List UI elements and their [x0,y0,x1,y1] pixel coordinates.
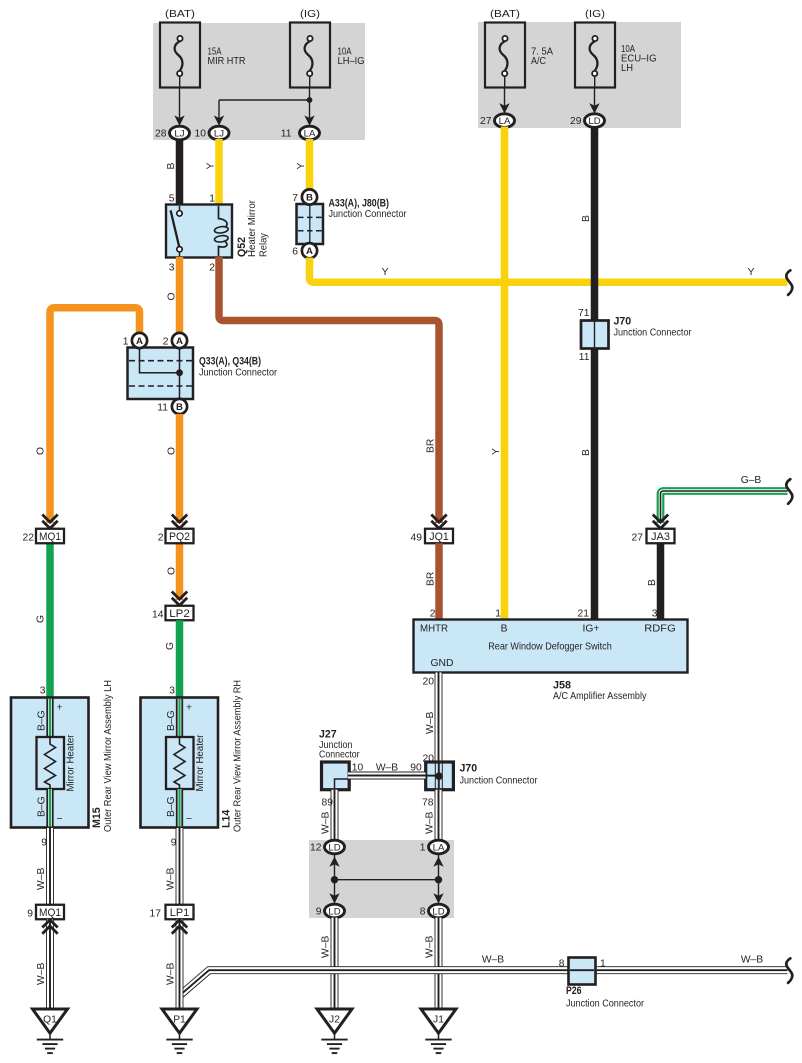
svg-text:29: 29 [570,116,582,127]
wire Y yellow 11LA to junction connector A33 pin 7 [296,139,310,190]
svg-text:O: O [167,567,178,575]
wire B black JA3 to defogger switch pin 3 RDFG [647,543,661,619]
svg-text:Y: Y [382,267,389,278]
svg-text:+: + [57,703,63,714]
wire O orange Q33 pin1A left branch down to 22 MQ1 [36,308,140,523]
junction connector J27 [319,729,360,790]
svg-text:71: 71 [578,308,590,319]
svg-text:7: 7 [292,193,298,204]
svg-text:+: + [186,703,192,714]
harness arrow into JA3 [653,515,668,529]
svg-text:LJ: LJ [214,128,224,139]
wire W-B L14 pin 9 to 17 LP1 [166,828,180,905]
svg-text:W–B: W–B [166,963,177,985]
svg-text:J1: J1 [433,1015,444,1026]
svg-text:A/C Amplifier Assembly: A/C Amplifier Assembly [553,691,647,702]
svg-text:1: 1 [420,843,426,854]
svg-text:Y: Y [491,448,502,455]
svg-text:9: 9 [41,838,47,849]
svg-text:9: 9 [27,908,33,919]
svg-text:A: A [136,336,143,347]
svg-text:49: 49 [411,532,423,543]
svg-text:LD: LD [588,116,600,127]
svg-text:B: B [647,579,658,586]
wire fuse10A to connectors 10 LJ / 11 LA with junction [214,87,315,126]
svg-text:B–G: B–G [37,796,48,817]
svg-text:B: B [166,163,177,170]
wire W-B bus to right edge with diagonal joint at P1 [180,955,788,996]
wire G green LP2 to L14 pin 3 [165,620,180,698]
wire B black 28LJ to relay pin 5 [166,139,180,205]
svg-text:B: B [176,402,183,413]
svg-text:27: 27 [480,116,492,127]
connector pin 10 LJ [195,126,229,140]
svg-text:W–B: W–B [425,712,436,734]
svg-text:(IG): (IG) [300,9,320,20]
svg-text:3: 3 [40,686,46,697]
junction connector J70 (upper) [578,308,692,363]
svg-text:Heater Mirror: Heater Mirror [247,199,258,257]
connector pin 9 LD [316,904,345,918]
connector pin 1 LA [420,840,449,854]
connector pin 8 LD [420,904,449,918]
svg-text:IG+: IG+ [583,624,600,635]
svg-text:5: 5 [169,194,175,205]
wire BR brown relay pin2 right and down to 49 JQ1 [219,257,439,523]
connector 9 MQ1 [27,905,64,920]
svg-text:W–B: W–B [36,868,47,890]
wire Y yellow 27LA down to defogger switch pin 1 [491,127,505,620]
svg-text:O: O [167,292,178,300]
svg-text:Outer Rear View Mirror Assembl: Outer Rear View Mirror Assembly LH [103,680,114,832]
wire fuse10A to connector 29 LD [589,87,599,114]
svg-text:MQ1: MQ1 [39,531,61,543]
svg-text:20: 20 [423,677,435,688]
svg-text:J70: J70 [614,316,632,328]
svg-text:J2: J2 [329,1015,340,1026]
svg-text:Y: Y [748,267,755,278]
svg-text:10: 10 [352,763,364,774]
svg-text:17: 17 [150,908,162,919]
svg-text:(BAT): (BAT) [165,9,195,20]
svg-text:JQ1: JQ1 [429,531,449,543]
svg-text:(IG): (IG) [585,9,605,20]
svg-text:MHTR: MHTR [420,624,448,635]
wire Y yellow A33 pin6 down and right to edge break [310,258,788,283]
svg-text:27: 27 [632,532,644,543]
svg-text:8: 8 [559,959,565,970]
svg-text:Junction Connector: Junction Connector [566,999,644,1010]
svg-text:1: 1 [209,194,215,205]
svg-text:MQ1: MQ1 [39,907,61,919]
wire W-B between J27 pin 10 and J70 pin 90 [348,763,426,776]
junction connector A33(A), J80(B) [292,189,407,258]
svg-text:Q33(A), Q34(B): Q33(A), Q34(B) [199,356,261,368]
svg-text:−: − [57,814,63,825]
wire W-B 9LD down to ground J2 [321,918,335,1009]
power distribution panel (battery/ignition) left [153,23,365,140]
power distribution panel (battery/ignition) right [478,22,681,128]
connector 49 JQ1 [411,529,453,544]
svg-text:Junction Connector: Junction Connector [460,776,538,787]
harness arrow into LP2 [172,592,187,606]
harness arrow into JQ1 [431,515,446,529]
svg-text:Junction Connector: Junction Connector [199,368,277,379]
svg-text:W–B: W–B [425,812,436,834]
svg-text:MIR HTR: MIR HTR [208,56,246,67]
svg-text:2: 2 [209,263,215,274]
connector 22 MQ1 [23,529,64,544]
fuse 7.5A A/C [485,9,553,88]
svg-text:LD: LD [328,842,340,853]
ground J2 [317,1009,352,1053]
wire W-B 8LD down to ground J1 [425,918,439,1009]
svg-text:B–G: B–G [37,710,48,731]
svg-text:LA: LA [499,116,511,127]
outer rear view mirror assembly RH L14 [141,680,244,832]
svg-text:Rear Window Defogger Switch: Rear Window Defogger Switch [488,642,612,653]
svg-text:BR: BR [426,572,437,586]
wire break W-B right edge [786,958,792,983]
junction connector J70 (center) [424,762,538,790]
svg-text:89: 89 [322,798,334,809]
svg-text:Mirror Heater: Mirror Heater [195,734,206,792]
junction connector Q33(A), Q34(B) [123,333,278,414]
svg-text:12: 12 [310,843,322,854]
svg-text:Junction Connector: Junction Connector [614,328,692,339]
svg-text:PQ2: PQ2 [169,531,190,543]
ground Q1 [33,1009,68,1053]
wire Y yellow 10LJ to relay pin 1 [206,139,220,205]
svg-text:8: 8 [420,907,426,918]
wire W-B from switch GND to J70 (center) [435,673,443,763]
svg-text:10: 10 [195,129,207,140]
svg-text:1: 1 [495,608,501,619]
svg-text:−: − [186,814,192,825]
svg-text:11: 11 [157,402,168,413]
svg-text:A/C: A/C [531,56,546,67]
svg-text:2: 2 [163,336,169,347]
svg-text:LP2: LP2 [169,608,190,620]
wire O orange relay pin3 to junction connector Q33 pin 2A [167,257,180,332]
rear window defogger switch J58 A/C amplifier assembly [414,608,688,702]
svg-text:3: 3 [169,263,175,274]
harness arrow out of MQ1 [42,920,57,934]
svg-text:28: 28 [155,129,167,140]
svg-text:A: A [306,246,313,257]
fuse 15A MIR HTR [160,9,246,88]
fuse 10A ECU-IG LH [575,9,657,88]
svg-text:W–B: W–B [321,812,332,834]
svg-text:B: B [501,624,508,635]
svg-text:Junction Connector: Junction Connector [329,209,407,220]
pin 20 label [423,677,436,765]
wire fuse15A to connector 28 LJ [174,87,184,126]
svg-text:J70: J70 [460,763,478,775]
ground J1 [421,1009,456,1053]
svg-text:P1: P1 [173,1015,186,1026]
wire W-B J27 pin 89 down to 12 LD [321,790,335,841]
svg-text:L14: L14 [221,810,233,828]
svg-text:G: G [36,615,47,623]
svg-text:21: 21 [578,608,590,619]
svg-text:A33(A), J80(B): A33(A), J80(B) [329,198,390,210]
svg-text:P26: P26 [566,985,582,997]
svg-text:3: 3 [652,608,658,619]
harness arrow out of LP1 [172,920,187,934]
svg-text:A: A [176,336,183,347]
svg-text:JA3: JA3 [651,531,670,543]
svg-text:W–B: W–B [166,868,177,890]
fuse 10A LH-IG [290,9,365,88]
svg-text:B: B [306,192,313,203]
svg-text:78: 78 [422,798,434,809]
svg-text:W–B: W–B [36,963,47,985]
svg-text:W–B: W–B [425,936,436,958]
wire fuse7.5A to connector 27 LA [499,87,509,114]
svg-text:Y: Y [296,163,307,170]
internal link line with junctions [329,853,443,904]
svg-text:Connector: Connector [319,750,360,761]
svg-text:O: O [167,447,178,455]
wire break yellow right edge [786,270,792,295]
svg-text:W–B: W–B [482,955,504,966]
connector 17 LP1 [150,905,194,920]
svg-text:22: 22 [23,532,35,543]
svg-text:1: 1 [123,336,129,347]
svg-text:Q1: Q1 [43,1015,57,1026]
svg-text:B–G: B–G [166,710,177,731]
ground P1 [162,1009,197,1053]
svg-text:B: B [581,215,592,222]
svg-text:B: B [581,449,592,456]
svg-text:Outer Rear View Mirror Assembl: Outer Rear View Mirror Assembly RH [233,680,244,832]
svg-text:LD: LD [432,906,444,917]
wire B black 29LD down through J70 to defogger switch pin 21 [581,127,595,620]
svg-text:LD: LD [328,906,340,917]
svg-text:M15: M15 [91,807,103,828]
svg-text:3: 3 [169,686,175,697]
wire G-B green/black from right edge to 27 JA3 [661,475,788,523]
harness arrow into PQ2 [172,515,187,529]
wire BR brown JQ1 to defogger switch pin 2 MHTR [426,543,440,619]
svg-text:W–B: W–B [376,763,398,774]
svg-text:G: G [165,642,176,650]
junction connector P26 [559,958,645,1010]
svg-text:Relay: Relay [259,232,270,257]
svg-text:W–B: W–B [321,936,332,958]
harness panel (gray) with LD/LA pins [309,840,454,918]
svg-text:6: 6 [292,247,298,258]
connector pin 12 LD [310,840,344,854]
svg-text:LP1: LP1 [170,907,190,919]
svg-text:Y: Y [206,163,217,170]
wire G green 22MQ1 to M15 pin 3 [36,543,51,698]
svg-text:G–B: G–B [741,475,762,486]
svg-text:J58: J58 [553,680,571,692]
connector 14 LP2 [152,606,193,621]
wire O orange PQ2 to LP2 [167,544,180,601]
svg-text:11: 11 [579,352,590,363]
wire W-B MQ1 to ground Q1 [36,920,50,1010]
svg-text:GND: GND [431,658,454,669]
connector pin 29 LD [570,114,604,128]
svg-text:LH–IG: LH–IG [338,56,365,67]
relay Q52 Heater Mirror Relay [166,194,270,274]
svg-text:11: 11 [281,129,292,140]
svg-text:LA: LA [433,842,445,853]
outer rear view mirror assembly LH M15 [11,680,114,832]
svg-text:9: 9 [171,838,177,849]
svg-text:O: O [36,447,47,455]
wire break G-B right edge [786,479,792,504]
svg-text:RDFG: RDFG [644,624,676,635]
svg-text:14: 14 [152,609,164,620]
svg-text:1: 1 [600,959,606,970]
svg-text:B–G: B–G [166,796,177,817]
svg-text:2: 2 [430,608,436,619]
svg-text:2: 2 [158,532,164,543]
connector pin 11 LA [281,126,320,140]
svg-text:90: 90 [410,763,422,774]
connector pin 27 LA [480,114,514,128]
svg-text:BR: BR [426,439,437,453]
svg-text:(BAT): (BAT) [490,9,520,20]
svg-text:LA: LA [304,128,316,139]
svg-text:9: 9 [316,907,322,918]
svg-text:W–B: W–B [741,955,763,966]
connector pin 28 LJ [155,126,189,140]
connector 2 PQ2 [158,529,194,544]
svg-text:Mirror Heater: Mirror Heater [66,734,77,792]
harness arrow into MQ1 [42,515,57,529]
svg-text:LJ: LJ [174,128,184,139]
wire W-B LP1 to ground P1 [166,920,180,1010]
wire O orange Q33 pin 11B down to 2 PQ2 [167,414,180,523]
svg-text:LH: LH [621,63,633,74]
wire W-B J70 pin 78 down to 1 LA [422,790,438,841]
connector 27 JA3 [632,529,675,544]
svg-text:J27: J27 [319,729,337,741]
wire W-B M15 pin 9 to 9 MQ1 [36,828,50,905]
